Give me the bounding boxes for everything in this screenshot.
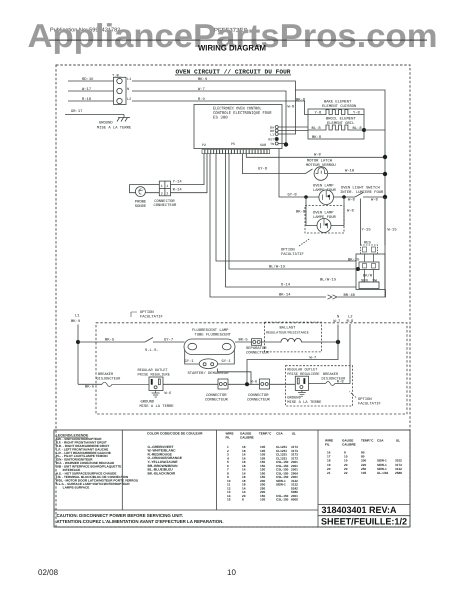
svg-text:BK-15: BK-15: [348, 258, 360, 263]
svg-text:GY-8: GY-8: [258, 167, 268, 172]
wire R-9: [132, 101, 308, 115]
svg-text:W-7: W-7: [198, 87, 205, 92]
svg-text:318403401 REV:A: 318403401 REV:A: [322, 505, 397, 515]
svg-text:Y-8: Y-8: [353, 111, 361, 116]
tube to starter wires: [185, 350, 200, 364]
probe sensor circle: [135, 187, 145, 197]
svg-text:TEMP.°C: TEMP.°C: [259, 432, 272, 436]
svg-text:CONTROLE ELECTRONIQUE FOUR: CONTROLE ELECTRONIQUE FOUR: [213, 111, 272, 116]
svg-text:REGULAR OUTLET: REGULAR OUTLET: [138, 368, 169, 373]
svg-text:S.L.S.: S.L.S.: [145, 348, 159, 353]
svg-text:CONNECTOR: CONNECTOR: [248, 393, 269, 398]
svg-text:W-17: W-17: [82, 87, 91, 92]
wire BK-15 row: [216, 154, 356, 261]
svg-text:SHEET/FEUILLE:1/2: SHEET/FEUILLE:1/2: [321, 517, 407, 527]
svg-text:REGULAR OUTLET: REGULAR OUTLET: [287, 367, 318, 372]
svg-text:CSA: CSA: [377, 439, 384, 443]
ballast inductor L1: [262, 338, 339, 342]
svg-text:CONNECTEUR: CONNECTEUR: [247, 398, 271, 403]
outer dashed frame of diagram: [56, 65, 410, 527]
wire Y-15 vertical: [360, 199, 362, 246]
svg-text:FLUORESCENT LAMP: FLUORESCENT LAMP: [192, 328, 229, 333]
svg-text:MISE A LA TERRE: MISE A LA TERRE: [97, 126, 132, 131]
optional oven lamp dashed box: [305, 206, 344, 234]
svg-text:02/08: 02/08: [38, 568, 59, 577]
svg-text:BR-40: BR-40: [344, 293, 356, 298]
sensor connector: [359, 262, 379, 270]
svg-text:W-6: W-6: [251, 380, 259, 385]
wire R-18 (supply stub L2): [68, 100, 114, 102]
svg-text:GROUND: GROUND: [287, 395, 301, 400]
wire W-7 neutral: [132, 91, 286, 145]
svg-text:GY-8: GY-8: [288, 192, 298, 197]
svg-text:WIRING DIAGRAM: WIRING DIAGRAM: [198, 44, 266, 53]
svg-text:COLOR CODE/CODE DE COULEUR: COLOR CODE/CODE DE COULEUR: [147, 432, 203, 436]
svg-text:105: 105: [361, 471, 366, 475]
svg-text:BAKE ELEMENT: BAKE ELEMENT: [324, 100, 352, 105]
svg-text:CALIBRE: CALIBRE: [240, 435, 254, 439]
wire W-15 vertical: [384, 197, 386, 245]
svg-text:FIL: FIL: [325, 442, 330, 446]
svg-text:W-8: W-8: [348, 198, 356, 203]
svg-text:LAMPE FOUR: LAMPE FOUR: [313, 188, 337, 193]
svg-text:FIL: FIL: [226, 435, 231, 439]
svg-text:N: N: [337, 315, 339, 320]
ballast dashed box: [264, 322, 321, 352]
wire W-17 (supply stub N): [68, 90, 114, 92]
oven lamp DS1: [319, 190, 334, 205]
svg-text:W-8: W-8: [347, 209, 355, 214]
svg-text:OVEN LAMP: OVEN LAMP: [313, 211, 334, 216]
svg-text:UL-1/92: UL-1/92: [377, 471, 388, 475]
svg-text:DISJONCTEUR: DISJONCTEUR: [322, 377, 347, 382]
svg-text:BREAKER: BREAKER: [323, 372, 339, 377]
svg-text:L1: L1: [270, 132, 274, 136]
wire to right outlet: [270, 383, 296, 385]
svg-text:L2: L2: [348, 315, 353, 320]
svg-text:W-15: W-15: [388, 228, 398, 233]
svg-text:22: 22: [344, 471, 348, 475]
svg-text:P2: P2: [202, 143, 206, 148]
svg-text:1: 1: [166, 184, 168, 189]
wire tube to separator BK-5: [235, 341, 252, 343]
svg-text:W-10: W-10: [345, 169, 355, 174]
svg-text:BROIL ELEMENT: BROIL ELEMENT: [326, 117, 356, 122]
legend box: [54, 430, 410, 527]
svg-text:MOTOR LATCH: MOTOR LATCH: [307, 159, 332, 164]
svg-text:SUB: SUB: [260, 143, 266, 148]
svg-text:FACULTATIF: FACULTATIF: [281, 252, 305, 257]
probe leads: [130, 185, 160, 193]
svg-text:BK-6: BK-6: [85, 384, 95, 389]
connector (mid 2): [260, 379, 270, 389]
sensor assembly outer box: [356, 254, 385, 289]
svg-text:BL/W-19: BL/W-19: [269, 265, 286, 270]
svg-text:ES 300: ES 300: [213, 116, 228, 121]
svg-text:2: 2: [166, 191, 168, 196]
svg-text:2: 2: [161, 191, 163, 196]
svg-text:OPTION: OPTION: [281, 248, 295, 253]
svg-text:10: 10: [227, 568, 236, 577]
probe connector J1: [159, 181, 170, 196]
svg-text:2588: 2588: [395, 471, 402, 475]
svg-text:CALIBRE: CALIBRE: [342, 442, 356, 446]
motor latch M1: [314, 167, 328, 181]
W-7 return wire: [247, 342, 338, 384]
node TN junction: [284, 142, 288, 146]
wires to optional lamp: [306, 197, 317, 226]
svg-text:GROUND: GROUND: [141, 400, 155, 405]
svg-text:21: 21: [327, 471, 331, 475]
svg-text:OPTION: OPTION: [140, 310, 154, 315]
svg-text:BK-14: BK-14: [279, 293, 291, 298]
svg-text:ELECTRONIC OVEN CONTROL: ELECTRONIC OVEN CONTROL: [213, 107, 262, 112]
svg-text:REGULATEUR/RESISTANCE: REGULATEUR/RESISTANCE: [266, 331, 309, 336]
svg-text:BK-5: BK-5: [105, 337, 115, 342]
wire to node W-6: [228, 383, 260, 385]
svg-text:TN: TN: [270, 142, 274, 146]
node at element output: [362, 128, 366, 132]
svg-text:UL: UL: [292, 432, 296, 436]
svg-text:W-8: W-8: [288, 105, 296, 110]
svg-text:15: 15: [227, 498, 231, 502]
svg-text:Y-8: Y-8: [315, 111, 323, 116]
svg-text:OPTION: OPTION: [358, 397, 372, 402]
optional oven lamp DS2: [317, 219, 331, 233]
svg-text:R-18: R-18: [82, 97, 92, 102]
svg-text:BL-8: BL-8: [312, 126, 322, 131]
right outlet option dashed box: [286, 366, 353, 406]
svg-text:CSA: CSA: [276, 432, 283, 436]
svg-text:BK-8: BK-8: [312, 135, 322, 140]
wire W-8 row: [246, 154, 385, 157]
pin wires: [278, 126, 308, 128]
svg-text:LAMPE FOUR: LAMPE FOUR: [313, 215, 337, 220]
svg-text:FACULTATIF: FACULTATIF: [358, 402, 382, 407]
starter link wire: [218, 369, 251, 385]
svg-text:BK-8: BK-8: [296, 210, 306, 215]
svg-text:R-8: R-8: [347, 319, 355, 324]
svg-text:ELEMENT CUISSON: ELEMENT CUISSON: [322, 104, 356, 109]
svg-text:DISJONCTEUR: DISJONCTEUR: [97, 377, 122, 382]
svg-text:CONNECTOR: CONNECTOR: [206, 393, 227, 398]
breaker (right): [326, 382, 335, 386]
svg-text:BK.-BLACK/NOIR: BK.-BLACK/NOIR: [148, 471, 176, 475]
svg-text:LAMPE-SURFACE: LAMPE-SURFACE: [56, 485, 90, 489]
svg-text:W-8: W-8: [314, 153, 322, 158]
bake element heater: [308, 110, 364, 115]
svg-text:L1: L1: [75, 314, 80, 319]
svg-text:TEMP.°C: TEMP.°C: [361, 439, 374, 443]
svg-text:MOTEUR VERROU: MOTEUR VERROU: [306, 163, 336, 168]
svg-text:RD-16: RD-16: [82, 77, 94, 82]
svg-text:CAUTION: DISCONNECT POWER BEFO: CAUTION: DISCONNECT POWER BEFORE SERVICI…: [57, 513, 184, 518]
svg-text:RST: RST: [268, 137, 274, 141]
wire GR-17 to ground: [65, 114, 124, 116]
svg-text:8: 8: [242, 498, 244, 502]
svg-text:GY-1: GY-1: [222, 359, 232, 364]
svg-text:OVEN LIGHT SWITCH: OVEN LIGHT SWITCH: [341, 186, 380, 191]
wire element to rail: [364, 129, 385, 131]
svg-text:Y-15: Y-15: [362, 228, 372, 233]
svg-text:GY-1: GY-1: [185, 359, 195, 364]
svg-text:O-14: O-14: [281, 283, 291, 288]
svg-text:GROUND: GROUND: [99, 121, 113, 126]
ground symbol (chassis): [117, 115, 130, 122]
connector (mid 1): [218, 379, 228, 389]
svg-text:N: N: [127, 87, 129, 92]
svg-text:GY-7: GY-7: [164, 337, 173, 342]
splice arrows: [328, 295, 338, 299]
ground (right outlet): [298, 390, 306, 396]
wire O-14 row: [226, 154, 357, 287]
control connector pin strip: [202, 150, 205, 154]
svg-text:SEN. SW.: SEN. SW.: [361, 279, 379, 284]
wire L1 drop: [77, 325, 79, 385]
svg-text:8005: 8005: [291, 498, 298, 502]
svg-text:MISE A LA TERRE: MISE A LA TERRE: [287, 400, 322, 405]
svg-text:MISE A LA TERRE: MISE A LA TERRE: [140, 404, 175, 409]
breaker (left): [102, 382, 149, 386]
svg-text:BK-9: BK-9: [198, 77, 208, 82]
svg-text:FACULTATIF: FACULTATIF: [140, 315, 164, 320]
svg-text:R-14: R-14: [173, 188, 183, 193]
svg-text:INTER. LUMIERE FOUR: INTER. LUMIERE FOUR: [340, 190, 384, 195]
wire BK-5 to lamp switch: [78, 338, 185, 343]
svg-text:CSL-150: CSL-150: [276, 498, 289, 502]
svg-text:BALLAST: BALLAST: [280, 326, 297, 331]
svg-text:BREAKER: BREAKER: [98, 372, 114, 377]
svg-text:W-7: W-7: [334, 319, 341, 324]
svg-text:RES: RES: [364, 241, 372, 246]
svg-text:BL/W-19: BL/W-19: [320, 278, 337, 283]
svg-text:W-6: W-6: [165, 391, 173, 396]
wire Y-14: [171, 154, 205, 185]
header rule: [49, 40, 427, 41]
ground (left outlet): [152, 391, 160, 398]
svg-text:BK-5: BK-5: [239, 337, 249, 342]
svg-text:1: 1: [161, 184, 163, 189]
svg-text:SEW-1: SEW-1: [276, 483, 286, 487]
wire BK-9 L1 rail: [132, 81, 385, 297]
svg-text:L1: L1: [127, 77, 131, 82]
wire BK-14 / BR-40 row: [210, 154, 326, 297]
svg-text:ATTENTION:COUPEZ L'ALIMENTATIO: ATTENTION:COUPEZ L'ALIMENTATION AVANT D'…: [57, 519, 224, 524]
wire BL/W-19 row: [229, 154, 358, 269]
svg-text:P5: P5: [231, 142, 235, 147]
svg-text:BK-9: BK-9: [71, 319, 81, 324]
svg-text:W-7: W-7: [310, 356, 317, 361]
separator connector: [252, 339, 262, 346]
svg-text:UL: UL: [396, 439, 400, 443]
svg-text:CONNECTEUR: CONNECTEUR: [154, 203, 178, 208]
wire R-14: [171, 154, 208, 193]
svg-text:OVEN CIRCUIT // CIRCUIT DU FOU: OVEN CIRCUIT // CIRCUIT DU FOUR: [176, 68, 291, 75]
svg-text:CONNECTEUR: CONNECTEUR: [246, 351, 270, 356]
starter: [199, 359, 217, 369]
svg-text:CONNECTEUR: CONNECTEUR: [205, 398, 229, 403]
svg-text:W-8: W-8: [371, 198, 379, 203]
connector pins between RES and sensor: [365, 254, 374, 262]
svg-text:BL-8: BL-8: [353, 126, 363, 131]
svg-text:TUBE FLUORESCENT: TUBE FLUORESCENT: [195, 333, 232, 338]
wire outlet to connectors: [163, 383, 218, 385]
svg-text:GR-17: GR-17: [71, 109, 82, 114]
svg-text:SONDE: SONDE: [135, 204, 147, 209]
svg-text:L2: L2: [127, 97, 131, 102]
svg-text:105: 105: [260, 498, 265, 502]
fluorescent option dashed box: [96, 323, 407, 414]
svg-text:R-9: R-9: [198, 97, 206, 102]
fluorescent tube FL1: [184, 339, 235, 355]
wire RD-16 (supply stub L1): [68, 80, 114, 82]
electronic oven control U1: [194, 105, 282, 149]
svg-text:Y-14: Y-14: [173, 180, 183, 185]
bake element box: [308, 109, 364, 139]
svg-text:OVEN LAMP: OVEN LAMP: [313, 184, 334, 189]
wire BK-6 to left breaker: [78, 383, 102, 385]
